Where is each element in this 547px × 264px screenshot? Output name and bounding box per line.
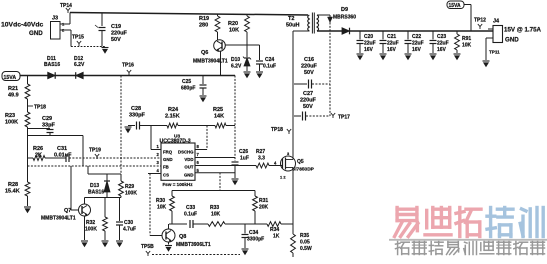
svg-text:TP11: TP11 (489, 50, 500, 55)
svg-text:6.2V: 6.2V (74, 62, 85, 68)
svg-text:R29: R29 (125, 184, 134, 190)
svg-text:GND: GND (29, 30, 43, 37)
svg-text:R20: R20 (228, 21, 238, 27)
svg-text:R34: R34 (270, 227, 279, 233)
svg-text:R32: R32 (86, 220, 95, 226)
svg-text:R31: R31 (259, 198, 268, 204)
svg-text:0.05: 0.05 (300, 240, 310, 246)
svg-text:TP14: TP14 (60, 3, 72, 9)
svg-text:MMBT3904LT1: MMBT3904LT1 (41, 216, 76, 222)
svg-text:6.2V: 6.2V (231, 64, 242, 70)
svg-text:680pF: 680pF (181, 86, 195, 92)
svg-text:R28: R28 (8, 182, 18, 188)
svg-text:C34: C34 (249, 230, 258, 236)
svg-text:100K: 100K (125, 191, 137, 197)
svg-text:15.4K: 15.4K (5, 189, 20, 195)
svg-text:220uF: 220uF (111, 31, 128, 37)
svg-text:R24: R24 (168, 107, 179, 113)
svg-text:0.01uF: 0.01uF (54, 153, 72, 159)
svg-text:100K: 100K (85, 227, 97, 233)
svg-text:Q5: Q5 (297, 159, 304, 165)
svg-text:1uF: 1uF (240, 156, 249, 162)
svg-text:TP18: TP18 (271, 127, 283, 133)
svg-text:C21: C21 (387, 34, 396, 40)
svg-text:10K: 10K (211, 212, 221, 218)
svg-text:GND: GND (163, 157, 173, 162)
svg-text:50V: 50V (111, 37, 121, 43)
svg-text:16V: 16V (387, 47, 397, 53)
svg-text:R27: R27 (256, 149, 265, 155)
svg-text:4.7uF: 4.7uF (123, 227, 136, 233)
svg-text:0.5W: 0.5W (300, 246, 312, 252)
svg-text:C31: C31 (57, 146, 67, 152)
svg-text:10Vdc-40Vdc: 10Vdc-40Vdc (1, 22, 44, 29)
svg-text:FRQ: FRQ (163, 149, 173, 154)
svg-text:C16: C16 (304, 57, 314, 63)
svg-text:UCC3807D-3: UCC3807D-3 (160, 139, 191, 145)
svg-text:220uF: 220uF (301, 64, 318, 70)
svg-text:20K: 20K (259, 205, 269, 211)
svg-text:330pF: 330pF (129, 113, 146, 119)
svg-text:R30: R30 (156, 198, 165, 204)
svg-text:10K: 10K (462, 43, 472, 49)
svg-text:15VA: 15VA (4, 75, 17, 81)
svg-text:3.3: 3.3 (258, 156, 265, 162)
svg-text:33pF: 33pF (42, 123, 55, 129)
svg-text:Fsw = 100kHz: Fsw = 100kHz (163, 182, 194, 187)
svg-text:R21: R21 (8, 86, 18, 92)
svg-text:C29: C29 (42, 116, 52, 122)
svg-text:16V: 16V (364, 47, 374, 53)
svg-text:Q6: Q6 (201, 50, 208, 56)
svg-text:49.9: 49.9 (8, 93, 19, 99)
svg-text:C33: C33 (186, 205, 195, 211)
svg-text:J3: J3 (52, 16, 58, 22)
svg-text:TP12: TP12 (474, 18, 486, 24)
svg-text:50V: 50V (304, 70, 314, 76)
svg-text:BAS16: BAS16 (44, 62, 60, 68)
svg-text:C30: C30 (124, 220, 133, 226)
svg-text:10K: 10K (229, 28, 239, 34)
svg-text:VDD: VDD (184, 157, 193, 162)
svg-text:C19: C19 (111, 24, 121, 30)
svg-text:C23: C23 (437, 34, 446, 40)
svg-text:50V: 50V (303, 104, 313, 110)
svg-text:Q8: Q8 (179, 234, 186, 240)
svg-text:GND: GND (505, 37, 519, 44)
svg-text:16V: 16V (437, 47, 447, 53)
svg-text:14K: 14K (214, 114, 224, 120)
svg-text:MMBT3906LT1: MMBT3906LT1 (176, 242, 211, 248)
svg-text:TP17: TP17 (338, 115, 350, 121)
svg-text:C27: C27 (303, 91, 313, 97)
svg-text:0.1uF: 0.1uF (184, 212, 197, 218)
svg-text:GND: GND (184, 173, 194, 178)
svg-text:R33: R33 (210, 205, 219, 211)
svg-text:TP18: TP18 (34, 105, 46, 111)
svg-text:FB: FB (163, 165, 169, 170)
svg-text:C28: C28 (131, 106, 141, 112)
svg-text:TP15: TP15 (72, 35, 84, 41)
svg-text:BAS16: BAS16 (88, 190, 104, 196)
svg-text:22uF: 22uF (412, 41, 424, 47)
svg-text:1 2: 1 2 (280, 175, 286, 180)
svg-text:D13: D13 (90, 183, 99, 189)
svg-text:220uF: 220uF (300, 98, 317, 104)
svg-text:22uF: 22uF (387, 41, 399, 47)
svg-text:50uH: 50uH (286, 23, 299, 29)
svg-text:R35: R35 (300, 233, 309, 239)
svg-text:R25: R25 (213, 107, 223, 113)
svg-text:R26: R26 (33, 146, 43, 152)
svg-text:22uF: 22uF (437, 41, 449, 47)
svg-text:D10: D10 (231, 57, 240, 63)
svg-text:CS: CS (163, 173, 169, 178)
svg-text:22uF: 22uF (364, 41, 376, 47)
svg-text:C20: C20 (364, 34, 373, 40)
svg-text:Q7: Q7 (64, 208, 71, 214)
svg-text:2.15K: 2.15K (165, 114, 180, 120)
svg-text:TP19: TP19 (89, 148, 101, 154)
svg-text:R91: R91 (462, 36, 471, 42)
svg-text:R19: R19 (199, 16, 209, 22)
svg-text:15V @ 1.75A: 15V @ 1.75A (504, 27, 542, 34)
svg-text:D9: D9 (341, 7, 348, 13)
svg-text:TP16: TP16 (122, 63, 134, 69)
svg-text:C22: C22 (412, 34, 421, 40)
svg-text:OUT: OUT (184, 165, 193, 170)
svg-text:16V: 16V (412, 47, 422, 53)
svg-text:0.1uF: 0.1uF (263, 64, 276, 70)
svg-text:DSCHG: DSCHG (178, 149, 194, 154)
svg-text:MMBT3904LT1: MMBT3904LT1 (193, 59, 228, 65)
svg-text:TP5B: TP5B (141, 244, 154, 250)
svg-text:R23: R23 (5, 113, 15, 119)
svg-text:T2: T2 (288, 16, 294, 22)
svg-text:MBRS360: MBRS360 (333, 15, 356, 21)
svg-text:280: 280 (199, 23, 208, 29)
svg-text:1K: 1K (273, 234, 280, 240)
svg-text:3300pF: 3300pF (247, 237, 264, 243)
svg-text:15VA: 15VA (449, 3, 462, 9)
svg-text:J4: J4 (493, 19, 500, 25)
svg-text:C26: C26 (239, 149, 248, 155)
svg-text:2K: 2K (35, 153, 42, 159)
svg-text:C25: C25 (182, 79, 191, 85)
svg-text:100K: 100K (5, 120, 18, 126)
svg-text:C24: C24 (265, 57, 274, 63)
svg-text:10K: 10K (157, 205, 167, 211)
svg-text:Si7850DP: Si7850DP (292, 167, 315, 173)
